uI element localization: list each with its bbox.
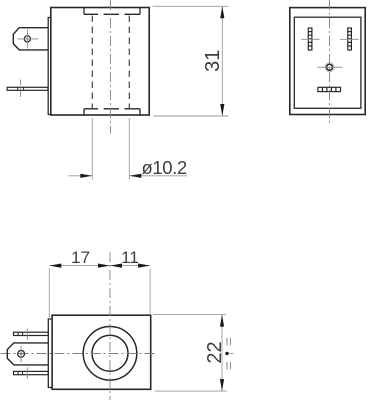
right pin slot [348,28,352,50]
left pin slot [308,28,312,50]
tab tick marks [18,87,24,90]
bottom recess step [84,109,140,115]
arrowhead up [220,315,224,327]
svg-text:31: 31 [202,50,224,72]
extension line bottom [155,390,227,392]
arrowhead up [220,6,224,18]
terminal hole [24,36,30,42]
arrowhead right (11) [138,264,150,268]
mounting flange line [48,18,50,115]
connector inner face [294,17,361,108]
extension line right [149,269,151,316]
vertical centerline of coil axis [109,0,111,134]
ground spade terminal [7,343,48,365]
arrowhead pointing left [129,174,141,178]
extension line left [48,269,50,320]
ground spade hole [18,350,25,357]
svg-text:11: 11 [121,248,139,267]
bore circle [92,335,128,371]
axis point marker dot [225,352,228,355]
dimension line 17 [49,265,110,267]
svg-text:17: 17 [71,248,90,267]
upper flat tab terminal [14,332,49,335]
arrowhead down [220,379,224,391]
arrowhead down [220,104,224,116]
arrowhead left (17) [49,264,61,268]
axis marker dashes right line [230,338,232,369]
bore hidden line right [128,16,130,109]
tube outer circle [83,327,137,381]
axis marker dashes left line [226,338,228,369]
left pin crosshair [301,38,320,40]
tab centerline [20,80,22,100]
dimension line vertical [221,315,223,392]
coil body outline [51,8,149,116]
screw hole crosshair [317,66,343,68]
axis marker horizontal stub [229,353,234,355]
terminal hole crosshair [18,30,39,49]
right pin crosshair [340,38,359,40]
lower flat tab terminal [7,87,48,90]
dimension line right part [129,175,187,177]
connector vertical centerline [329,0,331,125]
svg-text:22: 22 [204,341,226,363]
bore hidden line left [91,16,93,109]
upper tab ticks [18,332,23,335]
upper tab centerline [26,329,28,341]
horizontal centerline [1,353,158,355]
top recess step [84,8,140,14]
extension line right [128,118,130,180]
lower flat tab terminal [14,371,49,374]
arrowhead pointing right [80,174,92,178]
extension line top [153,5,229,7]
center screw hole halo [325,63,334,72]
mounting flange line [48,319,52,388]
svg-text:ø10.2: ø10.2 [142,157,187,178]
arrowhead right (17) [98,264,110,268]
spade hole vertical crosshair [20,346,22,363]
arrowhead left (11) [110,264,122,268]
lower tab centerline [26,367,28,379]
dimension line left part [69,175,93,177]
extension line left [91,118,93,180]
dimension line 11 [110,265,150,267]
center screw hole [327,64,333,70]
vertical centerline [109,252,111,400]
keyway slot [318,87,341,91]
connector outer outline [290,8,365,115]
coil body outline [52,315,151,389]
extension line top [153,314,226,316]
lower tab ticks [18,371,23,374]
extension line bottom [154,115,229,117]
dimension line vertical [221,6,223,116]
spade terminal (upper, with hole) [13,28,48,50]
